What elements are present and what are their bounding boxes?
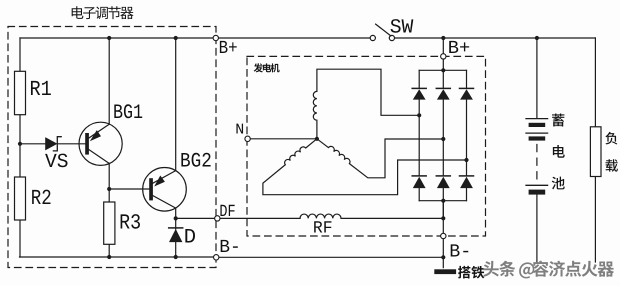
zener diode VS [46,137,61,151]
wire: phase taps [442,201,444,219]
wire: BG2 emitter to top rail [175,38,177,171]
switch SW [370,24,394,41]
label title 电子调节器 [72,6,134,19]
label 发电机 [254,63,280,72]
svg-text:D: D [184,226,196,249]
svg-text:R3: R3 [119,212,141,236]
label 负载 [605,132,617,172]
svg-text:RF: RF [313,220,333,239]
wire: battery drop [536,38,538,262]
svg-text:SW: SW [390,16,414,39]
wire: B+ rail from switch to battery and load [394,37,595,39]
terminal B+ generator [441,54,446,59]
stator phase winding 2 (lower-right coil) [317,139,443,178]
terminal DF regulator [215,216,220,221]
transistor BG1 [79,122,122,165]
svg-text:N: N [235,121,244,138]
svg-text:B+: B+ [219,38,238,59]
field winding RF line from DF [220,217,300,219]
wire: generator B- drop to ground [442,201,444,268]
node N wire to star point [250,138,317,140]
wire: BG1 emitter to top rail [108,38,110,124]
wire: DF stub [176,217,215,219]
terminal B- generator [441,233,446,238]
load resistor 负载 [590,127,601,177]
generator dashed box 发电机 [247,56,486,236]
wire: regulator left branch (R1/R2 string) [19,38,21,257]
label 蓄电池 [552,113,565,189]
regulator dashed box 电子调节器 [8,27,216,268]
stator phase winding 1 (vertical coil) [313,69,419,139]
label 搭铁 [458,266,484,279]
resistor R1 [15,71,26,114]
rectifier diode VD6 (lower, col 3) [460,160,474,201]
wire: load right drop [594,38,596,262]
terminal N generator [245,136,250,141]
rectifier bottom bus [419,200,466,202]
svg-text:BG2: BG2 [180,150,212,173]
svg-text:B-: B- [219,237,241,258]
rectifier diode VD5 (lower, col 2) [436,139,450,201]
rectifier diode VD1 (upper, col 1) [412,70,426,115]
svg-text:BG1: BG1 [113,102,143,125]
svg-text:VS: VS [45,151,69,174]
resistor R3 [108,189,110,257]
terminal B- regulator [214,255,219,260]
rectifier diode VD3 (upper, col 3) [460,70,474,160]
diode D [169,218,183,257]
stator phase winding 3 (lower-left coil) [263,139,467,195]
watermark 头条@容济点火器 [483,261,614,279]
wire: generator B+ drop to rectifier [442,38,444,70]
svg-text:B-: B- [449,241,471,262]
wire: zener branch [20,143,85,145]
svg-text:DF: DF [219,203,235,222]
field winding RF coil [300,214,443,218]
terminal B+ regulator [213,35,218,40]
rectifier diode VD4 (lower, col 1) [412,115,426,200]
wire: B- line regulator to ground node [219,256,443,258]
resistor R2 [15,177,26,220]
wire: BG1 collector to node / BG2 base [109,163,149,189]
rectifier diode VD2 (upper, col 2) [436,70,450,139]
svg-text:B+: B+ [448,38,471,59]
wire: B+ rail from regulator to switch [219,37,371,39]
rectifier top bus [419,69,466,71]
svg-text:R1: R1 [30,78,52,102]
wire: BG2 collector to DF node [175,208,177,218]
wire: regulator internal top rail [20,37,214,39]
wire: regulator bottom rail [20,256,214,258]
svg-text:R2: R2 [31,187,52,211]
battery 蓄电池 plates [526,119,548,195]
ground symbol 搭铁 [434,269,456,274]
transistor BG2 [143,168,187,212]
